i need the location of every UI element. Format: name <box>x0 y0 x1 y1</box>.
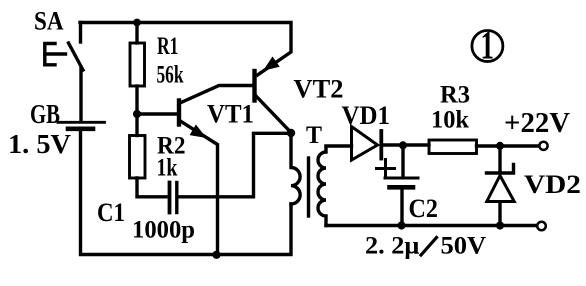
svg-text:R1: R1 <box>157 32 178 60</box>
svg-text:10k: 10k <box>431 106 469 133</box>
svg-text:1. 5V: 1. 5V <box>8 129 71 159</box>
svg-text:1: 1 <box>481 25 495 68</box>
svg-text:VT2: VT2 <box>294 75 344 104</box>
svg-text:C1: C1 <box>97 199 125 228</box>
svg-text:C2: C2 <box>409 195 438 223</box>
svg-text:50V: 50V <box>441 231 487 259</box>
svg-text:GB: GB <box>30 101 60 130</box>
svg-text:1000p: 1000p <box>132 216 195 243</box>
svg-text:2. 2μ: 2. 2μ <box>365 231 420 259</box>
svg-text:1k: 1k <box>157 153 178 181</box>
svg-text:VT1: VT1 <box>207 99 254 129</box>
svg-text:R3: R3 <box>440 81 470 108</box>
svg-text:VD2: VD2 <box>524 170 581 199</box>
svg-text:+22V: +22V <box>504 108 571 139</box>
svg-text:T: T <box>306 122 322 150</box>
svg-text:56k: 56k <box>157 60 184 88</box>
svg-text:SA: SA <box>34 7 64 36</box>
svg-text:VD1: VD1 <box>342 101 390 131</box>
